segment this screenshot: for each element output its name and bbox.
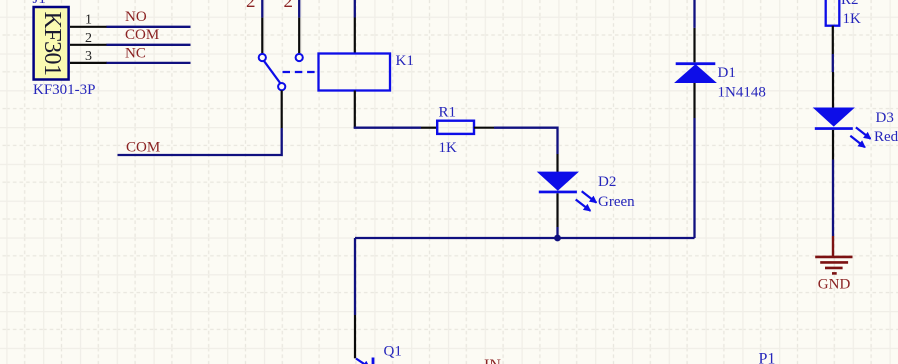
svg-text:K1: K1 — [396, 53, 414, 69]
relay linkage dashed line — [283, 71, 319, 73]
svg-text:1K: 1K — [439, 140, 458, 156]
pin 1 of J1 — [70, 26, 107, 28]
LED D3 triangle — [815, 108, 853, 125]
pin 2 of J1 — [70, 44, 107, 46]
svg-text:GND: GND — [818, 277, 851, 293]
wire net NC — [107, 62, 191, 64]
resistor R2 bottom pin — [832, 26, 834, 54]
relay coil wire top — [354, 0, 356, 18]
relay coil pin top — [354, 18, 356, 54]
svg-text:NC: NC — [125, 45, 146, 61]
wire R1 to D2 — [494, 128, 558, 154]
switch blade — [264, 60, 281, 83]
wire net COM — [107, 44, 191, 46]
svg-text:KF301: KF301 — [39, 12, 65, 77]
svg-text:Q1: Q1 — [384, 344, 402, 360]
svg-text:COM: COM — [125, 27, 159, 43]
resistor R2 body (clipped at top) — [826, 0, 840, 26]
diode D1 triangle — [676, 65, 715, 82]
resistor R1 left pin — [421, 127, 437, 129]
wire D2 to junction — [556, 227, 558, 238]
LED D3 arrow 2 — [850, 136, 865, 147]
ground bar 2 — [820, 261, 848, 264]
relay coil pin bottom — [354, 91, 356, 128]
svg-text:R2: R2 — [841, 0, 859, 8]
LED D2 cathode bar — [539, 191, 577, 194]
wire net NO — [107, 26, 191, 28]
diode D1 cathode pin — [693, 28, 695, 62]
switch pole pin — [281, 90, 283, 128]
switch contact B pin — [298, 18, 300, 54]
svg-text:NO: NO — [125, 9, 147, 25]
svg-text:D3: D3 — [876, 110, 894, 126]
switch contact A circle — [259, 54, 266, 61]
wire to switch contact A — [261, 0, 263, 18]
wire down to Q1 — [354, 238, 356, 315]
transistor Q1 base pin — [354, 315, 356, 358]
wire relay to R1 — [355, 127, 421, 128]
LED D2 arrow 1 — [582, 191, 597, 202]
svg-text:2: 2 — [246, 0, 256, 12]
svg-text:2: 2 — [85, 31, 92, 46]
LED D2 arrow 2 — [576, 200, 591, 211]
svg-text:1: 1 — [85, 13, 92, 28]
relay K1 coil box — [319, 54, 391, 91]
wire right vertical up to D1 — [693, 118, 695, 238]
diode D1 anode pin — [693, 82, 695, 118]
LED D3 cathode pin — [832, 130, 834, 160]
LED D2 triangle — [539, 172, 577, 189]
svg-text:COM: COM — [126, 139, 160, 155]
svg-text:1K: 1K — [843, 11, 862, 27]
wire to switch contact B — [298, 0, 300, 18]
ground bar 4 — [832, 272, 837, 275]
wire pole down to COM — [118, 128, 282, 155]
svg-text:D2: D2 — [598, 174, 616, 190]
svg-text:KF301-3P: KF301-3P — [33, 82, 96, 98]
svg-text:1N4148: 1N4148 — [718, 84, 766, 100]
svg-text:2: 2 — [284, 0, 294, 12]
LED D3 arrow 1 — [856, 127, 871, 138]
ground stem — [832, 236, 834, 256]
svg-text:Red: Red — [874, 129, 898, 145]
LED D2 cathode pin — [556, 193, 558, 227]
main horizontal wire — [355, 237, 695, 239]
pin 3 of J1 — [70, 62, 107, 64]
wire R2 to D3 — [832, 54, 834, 72]
LED D2 anode pin — [556, 154, 558, 174]
LED D3 cathode bar — [815, 127, 853, 130]
ground bar 3 — [825, 267, 843, 270]
resistor R1 body — [437, 121, 474, 134]
transistor Q1 emitter arrow — [356, 359, 370, 364]
switch contact B circle — [296, 54, 303, 61]
svg-text:3: 3 — [85, 49, 92, 64]
switch pole circle — [278, 83, 285, 90]
svg-text:R1: R1 — [439, 105, 457, 121]
svg-text:P1: P1 — [759, 351, 776, 364]
diode D1 cathode bar — [676, 62, 716, 65]
switch contact A pin — [261, 18, 263, 54]
ground bar 1 — [815, 256, 852, 259]
LED D3 anode pin — [832, 72, 834, 109]
svg-text:IN: IN — [484, 357, 501, 364]
svg-text:Green: Green — [598, 194, 635, 210]
transistor Q1 base bar — [372, 358, 375, 364]
wire D3 to GND — [832, 160, 834, 237]
resistor R1 right pin — [474, 127, 494, 129]
connector J1 body — [34, 7, 69, 80]
svg-text:D1: D1 — [718, 65, 736, 81]
junction dot — [554, 235, 561, 242]
wire above D1 — [693, 0, 695, 28]
